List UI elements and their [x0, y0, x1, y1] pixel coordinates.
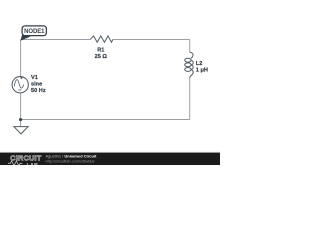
svg-text:V1: V1	[31, 75, 38, 81]
svg-text:CIRCUIT: CIRCUIT	[10, 153, 42, 162]
wire bottom rail	[21, 119, 190, 121]
wire right rail lower (L2 bottom to corner)	[189, 77, 191, 119]
svg-text:25 Ω: 25 Ω	[95, 54, 108, 60]
wire top rail right of R1	[113, 39, 190, 41]
svg-text:R1: R1	[97, 47, 104, 53]
CircuitLab logo	[8, 153, 42, 169]
resistor R1	[90, 36, 113, 60]
svg-text:L2: L2	[196, 61, 203, 67]
svg-text:50 Hz: 50 Hz	[31, 88, 46, 94]
svg-text:LAB: LAB	[27, 163, 39, 165]
wire left rail upper (corner to V1 top)	[20, 40, 22, 77]
inductor L2	[185, 52, 208, 77]
ground	[14, 127, 28, 134]
wire right rail upper (corner to L2 top)	[189, 40, 191, 53]
svg-text:1 μH: 1 μH	[196, 67, 208, 73]
junction (bottom-left node)	[19, 118, 22, 121]
svg-text:http://circuitlab.com/c/5wt3ar: http://circuitlab.com/c/5wt3ar	[46, 159, 96, 164]
wire left rail lower (V1 bottom to ground)	[20, 93, 22, 127]
voltage source V1	[12, 75, 46, 94]
watermark bar background	[0, 152, 220, 165]
svg-text:sine: sine	[31, 82, 42, 88]
node label NODE1	[21, 26, 47, 41]
svg-text:NODE1: NODE1	[24, 29, 45, 35]
wire top rail left of R1	[21, 39, 90, 41]
watermark text line 1	[46, 153, 98, 158]
watermark text line 2	[46, 159, 96, 164]
